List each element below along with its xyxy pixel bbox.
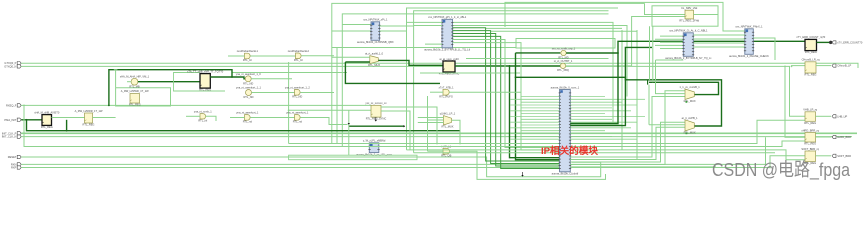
svg-text:xHA_M_AHA_HIP_VM_1: xHA_M_AHA_HIP_VM_1 bbox=[120, 74, 150, 78]
wire g9 dark vert bbox=[345, 62, 440, 83]
wire mid bus 2 bbox=[336, 48, 338, 144]
wire pass y28 bbox=[486, 27, 622, 29]
wire ip stub R5 bbox=[570, 110, 631, 112]
wire dark long y77 bbox=[516, 77, 722, 126]
wire ip stub L3 bbox=[510, 104, 560, 106]
svg-text:HxRD_BRR: HxRD_BRR bbox=[837, 135, 851, 139]
svg-text:xHA_M_xNB_AVIST0: xHA_M_xNB_AVIST0 bbox=[34, 110, 60, 114]
wire box chk bbox=[174, 73, 226, 92]
wire net init_clk_p bbox=[21, 132, 857, 134]
wire ip stub L13 bbox=[510, 133, 560, 135]
wire ip stub L4 bbox=[521, 107, 560, 109]
gate G6 bbox=[295, 90, 301, 96]
svg-text:GTXQ0_N: GTXQ0_N bbox=[4, 64, 16, 68]
wire ip stub R1 bbox=[570, 98, 645, 100]
wire bb3 in1 bbox=[660, 35, 683, 37]
wire ip out3 bbox=[570, 122, 685, 162]
svg-text:CL_NRV_LNk: CL_NRV_LNk bbox=[681, 6, 698, 10]
svg-text:RTL_ND: RTL_ND bbox=[243, 81, 253, 85]
wire net y58 bbox=[466, 58, 609, 60]
svg-text:RTL_REG: RTL_REG bbox=[41, 125, 53, 129]
flip-flop channel_up_reg bbox=[805, 62, 816, 73]
wire bb3 in5 bbox=[660, 48, 683, 50]
wire g12 out bbox=[566, 17, 685, 66]
output port LANE_UP bbox=[832, 115, 836, 118]
wire left vbus g bbox=[427, 96, 429, 151]
wire ip stub L2 bbox=[521, 101, 560, 103]
flip-flop CL_NRV bbox=[685, 10, 694, 19]
svg-text:y_W_xLPL_xMBNd: y_W_xLPL_xMBNd bbox=[363, 139, 386, 143]
svg-text:aurora_8b10b_2_BYTRPLB_NY_TQ_L: aurora_8b10b_2_BYTRPLB_NY_TQ_Lt bbox=[665, 56, 711, 60]
wire reg1 to reg2 bbox=[52, 117, 85, 119]
wire net rxn bbox=[21, 137, 765, 164]
wire bb1 out2 bbox=[380, 30, 407, 32]
wire g6 out bbox=[301, 92, 335, 94]
wire ip stub R2 bbox=[570, 101, 622, 103]
module BB1 bbox=[371, 22, 380, 41]
junction j14 bbox=[500, 152, 502, 154]
wire laneup out bbox=[816, 115, 832, 117]
module BB4 bbox=[745, 29, 754, 55]
svg-text:xTxT_ATB_1: xTxT_ATB_1 bbox=[439, 85, 454, 89]
svg-text:RXEQ_F: RXEQ_F bbox=[6, 103, 17, 107]
gate G5 bbox=[295, 115, 301, 121]
svg-text:RTL_nd: RTL_nd bbox=[243, 120, 253, 124]
wire ip stub R0 bbox=[570, 96, 605, 98]
wire mid bus bbox=[288, 62, 290, 144]
junction jrx bbox=[23, 105, 25, 107]
svg-text:RTL_REG: RTL_REG bbox=[805, 73, 817, 77]
net arrow a3 bbox=[375, 120, 377, 122]
wire g9 in1 bbox=[332, 56, 370, 58]
input port GTXQ0_P bbox=[17, 62, 21, 65]
svg-text:RTL_REG: RTL_REG bbox=[805, 50, 817, 54]
junction j12 bbox=[490, 146, 492, 148]
gate G3 bbox=[246, 90, 252, 96]
wire box circles bbox=[516, 39, 615, 49]
wire ip stub L11 bbox=[510, 127, 560, 129]
svg-text:xTY_ERR_COUNT_rq70: xTY_ERR_COUNT_rq70 bbox=[796, 35, 825, 39]
svg-text:yna_nt_asenkurt_1: yna_nt_asenkurt_1 bbox=[236, 111, 259, 115]
wire clnrv drop2 bbox=[652, 26, 654, 82]
wire pma loop bbox=[27, 120, 461, 131]
wire bb2 long out2 bbox=[453, 26, 628, 97]
wire net rxp bbox=[21, 156, 805, 168]
wire g15 out bbox=[450, 151, 606, 179]
wire g17 in mid bbox=[649, 124, 685, 126]
wire g14 in3 bbox=[418, 122, 444, 124]
input port GTXQ0_N bbox=[17, 65, 21, 68]
wire box bottom bbox=[289, 155, 417, 160]
wire g9 in2 bbox=[345, 61, 369, 63]
svg-text:at_rt_AxPB_1: at_rt_AxPB_1 bbox=[682, 116, 699, 120]
wire g17 src v bbox=[648, 85, 650, 125]
wire net reset bbox=[21, 157, 601, 177]
svg-text:xxx_NPtTWtX_xPt_1: xxx_NPtTWtX_xPt_1 bbox=[363, 18, 388, 22]
junction j2 bbox=[784, 66, 786, 68]
wire g2 out bbox=[251, 78, 292, 80]
svg-text:1_1_xx_xxxIxB_1: 1_1_xx_xxxIxB_1 bbox=[679, 85, 700, 89]
wire net gtxq0_p bbox=[21, 63, 858, 68]
svg-text:RTL_ND: RTL_ND bbox=[243, 95, 253, 99]
wire ip stub L6 bbox=[521, 113, 560, 115]
svg-text:CHxxxB_LP: CHxxxB_LP bbox=[837, 64, 851, 68]
wire ip stub R4 bbox=[570, 107, 612, 109]
wire right vline a bbox=[621, 30, 623, 150]
wire pma loop up bbox=[66, 120, 68, 131]
wire ip out2 bbox=[570, 127, 685, 159]
wire pma branch bbox=[349, 125, 404, 127]
svg-text:aurora_8b10b_2_xx_LPL_xxxx: aurora_8b10b_2_xx_LPL_xxxx bbox=[356, 152, 392, 156]
wire ip stub L8 bbox=[521, 118, 560, 120]
wire g13 out bbox=[449, 91, 521, 93]
svg-text:aurora_8b10b_CLTRNNB_QBX: aurora_8b10b_CLTRNNB_QBX bbox=[357, 40, 394, 44]
wire bb2 long out1 bbox=[453, 22, 614, 122]
gate G13 bbox=[443, 89, 449, 95]
wire b2 out bbox=[210, 76, 232, 78]
flip-flop sync_bold bbox=[443, 61, 455, 72]
wire bb3 in3 bbox=[660, 41, 683, 43]
svg-text:xHRD_BRR_rq: xHRD_BRR_rq bbox=[801, 128, 819, 132]
input port INIT_CLK_P bbox=[17, 132, 21, 135]
wire fan dark1 bbox=[510, 66, 560, 158]
wire net pma_init bbox=[21, 119, 42, 121]
svg-text:RTL_lnl: RTL_lnl bbox=[243, 58, 252, 62]
svg-text:RTL_REG: RTL_REG bbox=[199, 88, 211, 92]
svg-text:RTL_MUX: RTL_MUX bbox=[368, 63, 380, 67]
svg-text:xxx_xx_xxxlk_xxp_1: xxx_xx_xxxlk_xxp_1 bbox=[552, 46, 576, 50]
wire reg2 out bbox=[93, 117, 116, 119]
mux G17 bbox=[685, 120, 694, 131]
svg-text:xxx_NPtTWtX_PNnX_1: xxx_NPtTWtX_PNnX_1 bbox=[735, 25, 763, 29]
net arrow a4 bbox=[521, 175, 523, 177]
output port HARD_ERR bbox=[832, 135, 836, 138]
input port PMA_INIT bbox=[17, 118, 21, 121]
svg-text:at_rt_aurlkL1_0: at_rt_aurlkL1_0 bbox=[365, 52, 384, 56]
wire g9 out bbox=[378, 60, 443, 65]
wire g5 out bbox=[301, 118, 348, 125]
wire net chan clk bbox=[785, 66, 805, 137]
svg-text:RTL_ND: RTL_ND bbox=[292, 95, 302, 99]
svg-text:VHB_LR_rq: VHB_LR_rq bbox=[803, 108, 817, 112]
wire g1 out bbox=[138, 81, 200, 83]
junction j13 bbox=[495, 149, 497, 151]
wire bb3 in4 bbox=[655, 44, 683, 46]
svg-text:RXP: RXP bbox=[11, 166, 17, 170]
junction j6 bbox=[66, 130, 68, 132]
svg-text:PMA_INIT: PMA_INIT bbox=[4, 118, 16, 122]
wire bot net4 bbox=[414, 152, 775, 154]
svg-text:LHB_UP: LHB_UP bbox=[837, 114, 847, 118]
svg-text:xxx_NPtTWtX_Ct_At_It_C_NBL1: xxx_NPtTWtX_Ct_At_It_C_NBL1 bbox=[669, 29, 708, 33]
svg-text:xxx_NPtTWtX_gPt_1_tt_xt_xBL1: xxx_NPtTWtX_gPt_1_tt_xt_xBL1 bbox=[428, 15, 467, 19]
svg-text:RTL_QB: RTL_QB bbox=[441, 154, 451, 158]
wire g14 out bbox=[452, 120, 461, 143]
wire ip stub L7 bbox=[510, 116, 560, 118]
wire ip stub R15 bbox=[570, 138, 637, 140]
wire ip stub R14 bbox=[570, 135, 612, 137]
junction j15 bbox=[617, 52, 619, 54]
wire g10 in bbox=[186, 115, 200, 117]
wire bot net1 bbox=[289, 120, 805, 143]
wire g3 out bbox=[252, 92, 295, 94]
svg-text:RTL_XBQ: RTL_XBQ bbox=[557, 68, 569, 72]
flip-flop soft_err_reg bbox=[805, 151, 816, 162]
svg-text:RTL_REG: RTL_REG bbox=[804, 121, 816, 125]
wire ip stub R13 bbox=[570, 133, 645, 135]
svg-text:aurora_8b10b_0_xxxx_1: aurora_8b10b_0_xxxx_1 bbox=[551, 85, 580, 89]
clk square G16 bbox=[686, 101, 688, 103]
module BB5 bbox=[369, 143, 379, 153]
junction j16 bbox=[509, 65, 511, 67]
svg-text:RESET: RESET bbox=[8, 155, 17, 159]
wire cross net a bbox=[332, 47, 516, 49]
wire y8 loop bbox=[348, 110, 350, 155]
wire top bus 2 bbox=[407, 8, 619, 150]
wire ip stub R8 bbox=[570, 118, 612, 120]
wire fan2 bbox=[453, 31, 560, 164]
wire bb3-bb4 c bbox=[693, 42, 745, 44]
wire ip stub R9 bbox=[570, 121, 637, 123]
wire top bus 5 bbox=[505, 2, 745, 31]
mux G9 bbox=[370, 56, 379, 64]
wire bb1 out1 bbox=[380, 25, 414, 27]
wire bb1 in1 bbox=[342, 24, 371, 26]
wire dark loop left bbox=[109, 70, 232, 106]
wire ip stub R3 bbox=[570, 104, 637, 106]
wire top bus 3 bbox=[414, 11, 609, 153]
input port RXEQ_F bbox=[17, 104, 21, 107]
wire cross net b bbox=[232, 72, 347, 74]
svg-text:RTL_nd: RTL_nd bbox=[293, 120, 303, 124]
wire g1 in bbox=[127, 81, 131, 83]
junction j3 bbox=[765, 164, 767, 166]
svg-text:xTA_TT_xNB_xNR_TT_TQTT0: xTA_TT_xNB_xNR_TT_TQTT0 bbox=[187, 69, 224, 73]
wire bb3-bb4 a bbox=[693, 34, 745, 36]
tick T1 bbox=[114, 69, 118, 71]
wire bot net2 bbox=[24, 105, 805, 146]
wire bb3-bb4 b bbox=[693, 38, 745, 40]
junction jx1 bbox=[436, 143, 438, 145]
stub y8 bbox=[375, 117, 377, 120]
output port SOFT_ERR bbox=[832, 154, 836, 157]
wire ip stub L0 bbox=[521, 96, 560, 98]
wire net y73 bbox=[420, 72, 520, 74]
flip-flop hard_err_reg bbox=[805, 133, 816, 143]
svg-text:CHxxxB_LR_rq: CHxxxB_LR_rq bbox=[802, 58, 820, 62]
svg-text:yna_nt_asenkurt_1: yna_nt_asenkurt_1 bbox=[286, 111, 309, 115]
wire bb4 out bbox=[753, 38, 775, 60]
wire right vline b bbox=[636, 30, 638, 160]
wire derr out bbox=[817, 41, 831, 43]
wire g15 in bbox=[428, 150, 444, 152]
junction j5 bbox=[26, 119, 28, 121]
gate G2 bbox=[245, 76, 251, 82]
module BB3 bbox=[683, 33, 693, 57]
wire net lane_up branch bbox=[792, 65, 806, 68]
svg-text:RTL_MUX: RTL_MUX bbox=[441, 125, 453, 129]
wire ip dark out2 bbox=[570, 47, 652, 125]
input port RXP bbox=[17, 166, 21, 169]
input port RXN bbox=[17, 163, 21, 166]
wire fb loop1 bbox=[649, 82, 719, 94]
wire net rxeq bbox=[21, 104, 371, 106]
wire ip stub L14 bbox=[521, 135, 560, 137]
junction j9 bbox=[515, 76, 517, 78]
svg-text:RTL_MUX: RTL_MUX bbox=[684, 131, 696, 135]
wire loop box reg2 bbox=[116, 88, 171, 106]
svg-text:RTL_MB: RTL_MB bbox=[129, 85, 139, 89]
junction j11 bbox=[485, 143, 487, 145]
svg-text:A_RW_LVRWR_1T_1W: A_RW_LVRWR_1T_1W bbox=[121, 89, 149, 93]
wire ip bus L bbox=[520, 97, 522, 140]
input port INIT_CLK_N bbox=[17, 135, 21, 138]
wire y8 in2 bbox=[289, 109, 371, 111]
wire ip out5 bbox=[570, 166, 716, 168]
svg-text:INIT_CLK_N: INIT_CLK_N bbox=[2, 135, 17, 139]
svg-text:CSDN @电路_fpga: CSDN @电路_fpga bbox=[712, 159, 851, 181]
svg-text:RTL_REG: RTL_REG bbox=[129, 103, 141, 107]
svg-text:aurora_8b10b_2_PHASE_CHECK: aurora_8b10b_2_PHASE_CHECK bbox=[729, 54, 769, 58]
wire fan3 bbox=[453, 34, 560, 167]
wire g16 src bbox=[656, 59, 684, 61]
svg-text:xTY_ERR_COUNT70: xTY_ERR_COUNT70 bbox=[837, 40, 863, 44]
svg-text:RTL_MUX: RTL_MUX bbox=[684, 99, 696, 103]
wire ip stub R10 bbox=[570, 124, 622, 126]
gate G7 bbox=[245, 53, 251, 59]
flip-flop data_err_reg bbox=[805, 39, 817, 50]
wire g4 out bbox=[251, 117, 295, 119]
wire bb2 stub3 bbox=[425, 43, 442, 45]
flip-flop pma_init_reg bbox=[42, 115, 52, 126]
wire g8 out bbox=[302, 55, 335, 57]
junction j1 bbox=[791, 66, 793, 68]
svg-text:RTL_MD: RTL_MD bbox=[558, 55, 568, 59]
svg-text:RTL_REG_SYNC: RTL_REG_SYNC bbox=[439, 72, 460, 76]
wire b2 to g2 bbox=[232, 77, 245, 79]
tick T2 bbox=[647, 80, 649, 85]
output port DATA_ERR_COUNT bbox=[832, 41, 836, 44]
wire net gtxq0_n bbox=[21, 66, 805, 116]
svg-text:nextParlanDeckL2: nextParlanDeckL2 bbox=[288, 49, 310, 53]
wire y8 out2 bbox=[381, 111, 410, 150]
net arrow a2 bbox=[348, 123, 350, 125]
gate G1 bbox=[131, 78, 138, 85]
module IP_module bbox=[560, 90, 571, 172]
flip-flop sync2 bbox=[371, 105, 381, 117]
svg-text:aurora_8b10b_2_BYTRPLB_LL_TQ_L: aurora_8b10b_2_BYTRPLB_LL_TQ_LtI bbox=[424, 48, 470, 52]
wire g7 in bbox=[228, 55, 245, 57]
svg-text:yna_nt_xnnb_1: yna_nt_xnnb_1 bbox=[194, 110, 212, 114]
wire fan4 bbox=[453, 36, 560, 168]
junction jy8 bbox=[288, 109, 290, 111]
mux G16 bbox=[685, 89, 694, 100]
svg-text:IP相关的模块: IP相关的模块 bbox=[541, 145, 598, 157]
wire bb1 in2 bbox=[332, 30, 371, 32]
junction j10 bbox=[459, 143, 461, 145]
svg-text:RTL_REG_2FHd: RTL_REG_2FHd bbox=[679, 19, 699, 23]
wire ip dark out1 bbox=[570, 41, 805, 123]
wire dark into g11 bbox=[516, 52, 561, 54]
flip-flop lane_up_reg bbox=[805, 112, 816, 122]
svg-text:yna_nt_asenkurt_1_1: yna_nt_asenkurt_1_1 bbox=[236, 86, 262, 90]
wire clnrv out bbox=[694, 14, 719, 16]
wire chup out bbox=[816, 65, 831, 67]
wire bb2 stub1 bbox=[407, 21, 443, 23]
wire bot net3 bbox=[407, 150, 806, 160]
svg-text:RTL_lnl: RTL_lnl bbox=[294, 58, 303, 62]
junction jb2 bbox=[231, 76, 233, 78]
svg-text:yLNH1_LP_1: yLNH1_LP_1 bbox=[440, 112, 456, 116]
wire fan6 bbox=[453, 43, 560, 150]
clk square G17 bbox=[686, 132, 688, 134]
svg-text:SOFT_BRR: SOFT_BRR bbox=[837, 154, 851, 158]
svg-text:yna_nt_asenkurt_1_2: yna_nt_asenkurt_1_2 bbox=[285, 86, 311, 90]
wire box clnrv bbox=[652, 6, 718, 26]
wire fan dark2 bbox=[516, 53, 560, 160]
wire ip out4 bbox=[570, 91, 685, 165]
gate G10 bbox=[200, 114, 206, 119]
gate G12 bbox=[560, 63, 565, 68]
svg-text:A_RW_LVRWR_1T_1W: A_RW_LVRWR_1T_1W bbox=[75, 109, 103, 113]
wire ip stub L15 bbox=[510, 138, 560, 140]
wire ip stub R6 bbox=[570, 113, 605, 115]
flip-flop chk_reg bbox=[200, 74, 210, 89]
wire ip stub L1 bbox=[510, 98, 560, 100]
junction j7 bbox=[108, 105, 110, 107]
wire ip out1 bbox=[570, 97, 685, 158]
wire bb3 in2 bbox=[655, 38, 683, 40]
wire top bus 4 bbox=[342, 14, 608, 147]
wire g14 in2 bbox=[428, 119, 444, 121]
wire tstub bbox=[115, 70, 117, 88]
wire harderr out bbox=[816, 136, 832, 138]
wire g16 in mid bbox=[656, 60, 686, 94]
wire bb3-bb4 d bbox=[693, 46, 745, 48]
wire fan5 bbox=[453, 40, 560, 148]
stub ip bbox=[522, 172, 524, 175]
module BB2 bbox=[442, 19, 453, 48]
wire softerr out bbox=[816, 155, 832, 157]
net arrow a1 bbox=[404, 125, 406, 127]
input port RESET bbox=[17, 155, 21, 158]
svg-text:xt_xt_OUTBT_1: xt_xt_OUTBT_1 bbox=[554, 59, 573, 63]
wire g7 out bbox=[251, 55, 296, 57]
svg-text:aurora_8b10b_CLtxbttf: aurora_8b10b_CLtxbttf bbox=[552, 172, 579, 176]
mux G14 bbox=[444, 116, 452, 125]
svg-text:RTL_REG: RTL_REG bbox=[83, 123, 95, 127]
flip-flop pma_init_reg2 bbox=[85, 113, 93, 123]
wire top bus 1 bbox=[332, 3, 645, 143]
wire g14 in1 bbox=[418, 117, 444, 119]
wire clnrv drop1 bbox=[649, 26, 651, 80]
wire ip stub L10 bbox=[521, 124, 560, 126]
wire y8 out1 bbox=[381, 107, 437, 144]
wire ip stub R7 bbox=[570, 116, 645, 118]
wire g13 in bbox=[430, 91, 443, 93]
wire bb2 stub2 bbox=[414, 25, 442, 27]
junction j4 bbox=[769, 167, 771, 169]
svg-text:at_at_xxxx_xx20: at_at_xxxx_xx20 bbox=[439, 57, 459, 61]
wire pass y31 bbox=[491, 30, 637, 32]
gate G11 bbox=[561, 50, 566, 55]
wire g11 out bbox=[566, 52, 618, 54]
gate G4 bbox=[245, 115, 251, 121]
wire g10 out bbox=[206, 116, 216, 121]
wire ip stub R11 bbox=[570, 127, 631, 129]
svg-text:RTL_RUFG: RTL_RUFG bbox=[439, 95, 453, 99]
svg-text:nextParlanDeckL1: nextParlanDeckL1 bbox=[237, 49, 259, 53]
